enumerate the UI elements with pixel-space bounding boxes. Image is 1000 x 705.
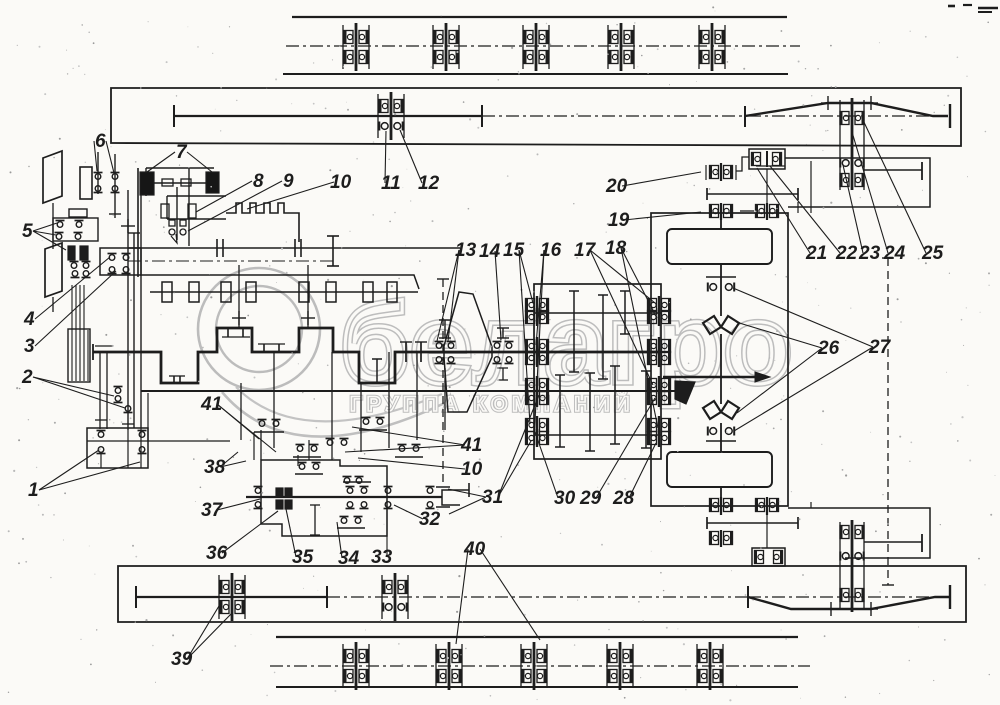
band2 shaft <box>174 115 482 117</box>
label 2 <box>21 367 125 408</box>
range upper rail <box>534 312 661 314</box>
drive sprocket lower <box>667 452 772 487</box>
subbox upper axle <box>864 162 922 180</box>
band3 zigzag right end <box>949 585 951 609</box>
band2 zigzag right end <box>949 104 951 128</box>
subbox upper outline <box>756 158 930 207</box>
clutch shaft <box>154 182 206 184</box>
gear 14 glyphs <box>493 342 514 364</box>
subbox upper small box <box>736 149 785 171</box>
engine row1 <box>56 221 84 228</box>
label 23 <box>843 165 881 264</box>
band3 shaft left end <box>135 586 137 608</box>
label 34 <box>337 522 360 569</box>
upper gear lines <box>167 196 226 219</box>
bevel pinion upper <box>703 316 739 334</box>
band2 shaft mid end <box>481 105 483 127</box>
pinion bearing upper <box>706 277 736 292</box>
watermark logo circles <box>198 268 455 437</box>
selector dashed shaft <box>436 279 450 507</box>
svg-text:6: 6 <box>95 131 106 152</box>
label 3 <box>24 271 116 357</box>
label 41 <box>345 427 482 456</box>
label 24 <box>852 132 906 264</box>
band3 cross right <box>864 602 878 616</box>
engine row4 <box>71 271 91 278</box>
label 40 <box>456 539 540 644</box>
pto gear b <box>343 482 371 493</box>
band2 frame <box>111 88 961 146</box>
riser b <box>301 265 315 328</box>
pto shaft <box>246 496 442 498</box>
main shaft left end <box>92 344 94 360</box>
tooth row <box>162 282 397 302</box>
label 8 <box>196 171 264 212</box>
band3 bearing 11-12 mirror <box>382 573 408 621</box>
watermark word <box>340 281 792 407</box>
label 37 <box>201 499 260 521</box>
label 13 <box>437 240 477 341</box>
clutch shaft verticals <box>95 346 113 429</box>
final drive lower bearing stack <box>840 520 864 612</box>
gear capline <box>327 236 339 266</box>
band3 shaft mid end <box>326 586 328 608</box>
clutch hub a <box>162 179 191 186</box>
gear 2 glyphs <box>114 387 133 413</box>
label 39 <box>171 601 232 670</box>
label 17 <box>574 240 655 385</box>
svg-text:18: 18 <box>605 238 627 259</box>
lower axle <box>707 517 798 529</box>
svg-text:38: 38 <box>204 457 226 478</box>
label 31 <box>448 395 539 514</box>
label 16 <box>534 240 562 440</box>
band4 roller bearing 5 <box>697 642 723 690</box>
clutch circles <box>169 229 186 235</box>
svg-text:22: 22 <box>835 243 858 264</box>
svg-text:14: 14 <box>479 241 501 262</box>
range left bearing stack 3 <box>526 376 549 407</box>
label 15 <box>503 240 533 424</box>
pto gear d <box>384 487 393 509</box>
band1 bottom rail <box>283 73 788 75</box>
shift fork funnel <box>444 292 492 412</box>
svg-text:12: 12 <box>418 173 440 194</box>
svg-text:8: 8 <box>253 171 264 192</box>
lowerleft box <box>87 428 148 468</box>
left shafts <box>98 152 141 430</box>
label 22 <box>770 166 858 264</box>
watermark subtitle <box>350 392 634 416</box>
svg-text:29: 29 <box>579 488 602 509</box>
svg-text:36: 36 <box>206 543 228 564</box>
pto upper gears <box>295 463 323 475</box>
label 21 <box>757 168 827 264</box>
gear 13 glyphs <box>435 342 456 364</box>
svg-text:28: 28 <box>612 488 635 509</box>
label 6 <box>94 131 114 173</box>
range gear 2 <box>569 291 579 372</box>
gear 41 left <box>254 420 284 433</box>
band3 centerline <box>327 596 935 598</box>
svg-text:19: 19 <box>608 210 630 231</box>
spline ticks a <box>217 239 223 257</box>
range left bearing stack 2 <box>526 337 549 367</box>
dog clutch <box>400 342 427 362</box>
band1 centerline <box>286 45 800 47</box>
svg-text:20: 20 <box>605 176 628 197</box>
range right bearing stack 3 <box>648 376 671 407</box>
label 9 <box>188 171 294 231</box>
axle 20 <box>707 188 798 200</box>
svg-text:21: 21 <box>805 243 827 264</box>
clutch housing <box>138 168 214 277</box>
lowerleft glyphs <box>97 431 147 454</box>
label 26 <box>736 322 840 413</box>
gear box 3-4 <box>100 248 141 275</box>
svg-text:5: 5 <box>22 221 33 242</box>
label 38 <box>204 452 246 478</box>
svg-text:3: 3 <box>24 336 35 357</box>
range gear 1 <box>555 375 565 447</box>
lowerleft caps <box>95 420 134 424</box>
lower long shaft <box>141 390 676 392</box>
label 12 <box>400 130 440 194</box>
engine row2 <box>55 233 83 240</box>
spline shaft neck <box>72 285 84 330</box>
svg-text:32: 32 <box>419 509 441 530</box>
svg-text:ГРУППА КОМПАНИЙ: ГРУППА КОМПАНИЙ <box>350 392 634 416</box>
range lower rail <box>534 434 661 436</box>
flag link <box>52 203 54 312</box>
bearing 19 pair <box>710 203 779 220</box>
band4 roller bearing 2 <box>436 642 462 690</box>
engine gear upper b <box>94 186 120 193</box>
label 5 <box>22 221 66 250</box>
label 10 <box>247 172 352 209</box>
band2 cross left <box>821 96 835 110</box>
step inner stem <box>372 359 382 383</box>
pto shaft bracket <box>442 483 469 505</box>
right dashed shaft <box>882 258 894 585</box>
svg-text:41: 41 <box>200 394 222 415</box>
band4 bottom rail <box>276 686 798 688</box>
pto housing <box>261 460 387 536</box>
pto lower stem <box>310 505 320 535</box>
label 18 <box>605 238 658 428</box>
range right bearing stack 4 <box>648 416 671 447</box>
svg-text:33: 33 <box>371 547 393 568</box>
main stepped shaft <box>93 328 661 383</box>
lower small box <box>752 548 785 566</box>
label 35 <box>286 509 314 568</box>
band3 frame <box>118 566 966 622</box>
label 19 <box>608 210 701 231</box>
band4 top rail <box>276 636 798 638</box>
step gear marks b <box>222 328 250 337</box>
svg-text:39: 39 <box>171 649 193 670</box>
primary centerline <box>128 260 333 262</box>
svg-text:30: 30 <box>554 488 576 509</box>
secondary line <box>140 275 419 289</box>
left shaft caps <box>109 214 140 233</box>
label 29 <box>579 398 655 509</box>
band1 roller bearing 4 <box>608 23 634 71</box>
band2 cross right <box>864 96 878 110</box>
svg-text:10: 10 <box>461 459 483 480</box>
engine dark cluster <box>68 246 88 260</box>
engine small box <box>69 209 87 217</box>
band4 roller bearing 1 <box>343 642 369 690</box>
final drive shaft <box>720 213 722 506</box>
gear 41 mid2 <box>326 439 349 446</box>
gear 14 stem <box>497 328 509 380</box>
lower bearing 2 <box>710 530 733 547</box>
step gear marks c <box>258 344 285 352</box>
riser a <box>232 265 246 328</box>
label 11 <box>381 131 401 194</box>
gear 41 mid <box>293 445 321 458</box>
gear 13 stem <box>439 320 451 430</box>
spline shaft hatch <box>68 329 90 382</box>
step gear marks a <box>169 376 185 383</box>
band3 axle zigzag <box>748 597 950 609</box>
pto gear e <box>426 487 435 509</box>
subbox lower axle <box>864 534 922 552</box>
spline ticks b <box>295 239 301 257</box>
clutch hub b <box>161 204 196 218</box>
svg-text:25: 25 <box>921 243 944 264</box>
svg-text:4: 4 <box>23 309 35 330</box>
range right bearing stack 2 <box>648 337 671 367</box>
band2 zigzag left end <box>744 106 746 127</box>
clutch disc right <box>206 172 219 193</box>
label 36 <box>206 511 278 564</box>
bearing 20 <box>706 163 736 181</box>
band2 bearing 11-12 <box>378 92 404 140</box>
label 32 <box>394 505 441 530</box>
svg-text:1: 1 <box>28 480 39 501</box>
pto upper gears2 <box>343 477 364 484</box>
subbox lower links <box>767 502 811 548</box>
primary shaft <box>128 247 460 249</box>
band3 bearing 39 <box>219 573 245 621</box>
label 7 <box>147 142 212 172</box>
label 10 <box>358 458 483 480</box>
pto dark cluster <box>276 488 292 509</box>
band2 shaft left end <box>173 105 175 127</box>
final drive upper bearing stack <box>840 98 864 190</box>
label 4 <box>23 257 110 330</box>
gear 4 glyphs <box>108 254 131 261</box>
range box <box>534 284 661 459</box>
clutch squares <box>169 220 186 226</box>
band1 roller bearing 5 <box>699 23 725 71</box>
clutch stem <box>171 187 177 243</box>
tooth rail <box>150 291 418 293</box>
label 14 <box>479 241 501 340</box>
band3 shaft <box>136 596 327 598</box>
band1 top rail <box>292 16 787 18</box>
label 1 <box>28 450 140 501</box>
subbox upper link lines <box>767 161 811 213</box>
svg-text:11: 11 <box>381 173 401 194</box>
svg-text:37: 37 <box>201 500 224 521</box>
range gear 4 <box>598 295 608 379</box>
range left bearing stack 4 <box>526 416 549 447</box>
engine glyph rows box <box>53 218 98 241</box>
gear 41 right2 <box>395 445 423 458</box>
label 41 <box>200 394 276 452</box>
svg-text:белагро: белагро <box>340 281 792 407</box>
label 25 <box>862 118 944 264</box>
pto lower gears <box>337 517 365 529</box>
pto gear c <box>346 502 369 509</box>
pto stem2 <box>261 430 309 466</box>
label 27 <box>733 288 892 431</box>
label 20 <box>605 172 701 197</box>
range right bearing stack 1 <box>648 296 671 326</box>
subbox lower outline <box>788 508 930 558</box>
svg-text:9: 9 <box>283 171 294 192</box>
band3 cross left <box>824 602 838 616</box>
gear 41 right <box>359 418 387 431</box>
engine gear upper a <box>94 173 120 180</box>
lowerleft stems <box>101 428 141 468</box>
drive sprocket upper <box>667 229 772 264</box>
band1 roller bearing 2 <box>433 23 459 71</box>
band4 roller bearing 3 <box>521 642 547 690</box>
engine block rect <box>80 167 92 199</box>
band2 axle zigzag <box>745 103 948 116</box>
label 30 <box>535 432 576 509</box>
engine row3 <box>70 262 91 269</box>
band4 centerline <box>270 665 810 667</box>
pinion bearing lower <box>706 427 736 442</box>
bevel pinion lower <box>703 401 739 419</box>
pto bearing a <box>254 487 263 509</box>
mid connector <box>148 393 254 460</box>
damper comb <box>226 203 299 242</box>
range gear 3 <box>585 373 595 451</box>
lower subbox bearing pair <box>710 497 779 515</box>
label 28 <box>612 443 656 509</box>
clutch disc left <box>140 172 154 195</box>
band3 zigzag left end <box>747 586 749 608</box>
label 33 <box>371 510 393 568</box>
band1 roller bearing 3 <box>523 23 549 71</box>
final drive housing <box>651 213 788 506</box>
radiator flag lower <box>45 243 62 297</box>
corner artifact <box>948 5 998 12</box>
input wedge <box>675 381 695 404</box>
input arrow shaft <box>663 372 770 382</box>
band2 centerline <box>482 115 934 117</box>
mid riser lines <box>241 352 417 460</box>
range gear 7 <box>641 371 651 448</box>
radiator flag upper <box>43 151 62 203</box>
svg-text:7: 7 <box>176 142 188 163</box>
range gear 6 <box>620 291 630 334</box>
band1 roller bearing 1 <box>343 23 369 71</box>
svg-text:26: 26 <box>817 338 840 359</box>
svg-text:2: 2 <box>21 367 33 388</box>
svg-text:40: 40 <box>463 539 486 560</box>
band4 roller bearing 4 <box>607 642 633 690</box>
clutch stem2 <box>188 168 190 246</box>
range gear 5 <box>610 366 620 444</box>
lowerleft mid line <box>87 440 230 442</box>
gear 3 glyphs <box>108 267 131 274</box>
svg-text:35: 35 <box>292 547 314 568</box>
range left bearing stack 1 <box>526 296 549 326</box>
